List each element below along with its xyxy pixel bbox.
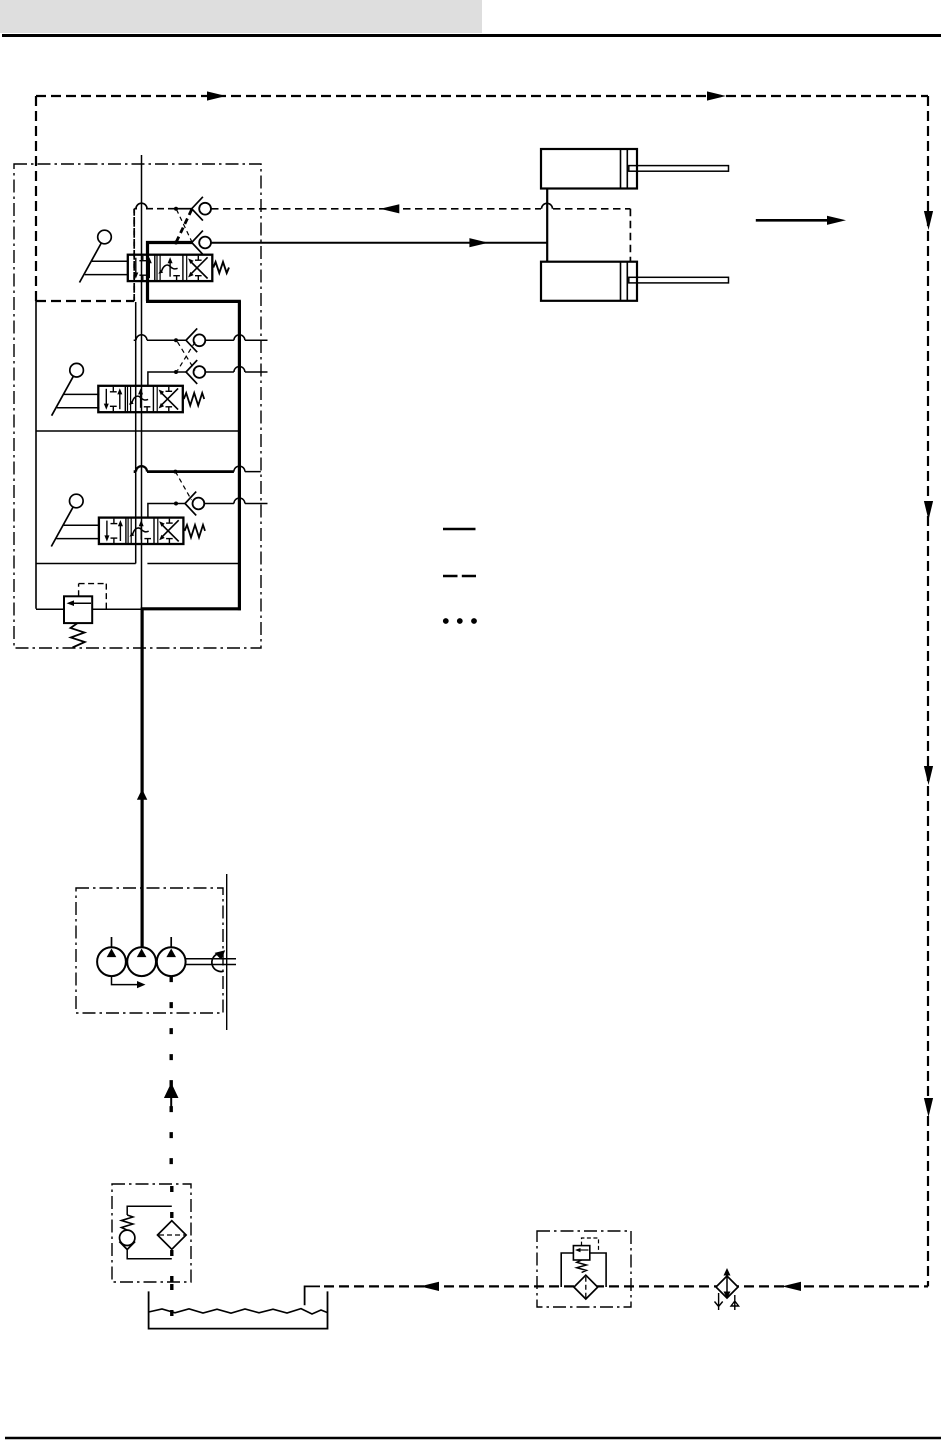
arrow right on work line — [469, 238, 488, 247]
jump over barrel wall — [542, 203, 553, 208]
cylinder upper barrel — [541, 149, 637, 189]
relief valve RV1 — [64, 596, 92, 623]
suction arrow up — [166, 1085, 177, 1112]
pump P2 — [127, 947, 156, 976]
valve V2 spring — [184, 393, 204, 406]
suction line in filter dotted — [170, 1186, 173, 1282]
arrow down right line — [924, 501, 933, 520]
valve V2 branch B right — [205, 367, 267, 372]
pilot cross X2 dashed — [178, 342, 196, 371]
arrow left on return line — [782, 1282, 801, 1291]
suction strainer F1 — [158, 1221, 187, 1250]
node J6 — [174, 502, 178, 506]
valve V3 spring — [185, 525, 205, 538]
cylinder lower rod — [629, 277, 729, 283]
pilot line to cylinder dashed — [211, 208, 630, 210]
block left border — [35, 301, 37, 609]
work line to cylinder — [211, 242, 547, 244]
return line dashed bottom — [324, 1285, 928, 1287]
legend dotted line — [443, 618, 477, 624]
valve V3 branch B right — [204, 498, 267, 504]
breather check right — [731, 1295, 739, 1310]
arrow on top line — [207, 91, 226, 100]
header bar — [0, 0, 482, 33]
cylinder lower barrel — [541, 262, 637, 301]
check valve CV1b — [192, 231, 211, 255]
valve V2 branch A — [134, 335, 268, 341]
relief valve pilot dashes — [79, 584, 107, 610]
arrow down right line — [924, 211, 933, 230]
bypass spring — [122, 1215, 133, 1230]
bypass check valve — [119, 1230, 135, 1249]
valve V2 body — [98, 386, 183, 412]
block shelf line right — [147, 563, 239, 565]
valve V2 branch B elbow — [148, 372, 186, 386]
rotation arrowhead — [215, 950, 226, 960]
supply gallery bottom — [141, 607, 241, 610]
pump P1 — [97, 947, 126, 976]
arrow on top line — [707, 91, 726, 100]
pilot loop left line — [35, 96, 37, 301]
legend dashed line — [443, 575, 476, 578]
return filter F2 — [574, 1275, 598, 1299]
supply gallery top — [146, 300, 241, 303]
rotation arrow — [212, 954, 224, 972]
legend solid line — [443, 528, 476, 531]
arrow up pump riser — [137, 789, 147, 800]
check valve CV2a — [186, 328, 205, 352]
section separator line — [36, 430, 239, 432]
relief valve spring — [71, 623, 85, 647]
wire J1 to check seat — [176, 208, 192, 210]
pilot riser dashed — [133, 209, 135, 301]
pilot cross X1 thin dashed — [177, 210, 192, 242]
node J5 — [173, 470, 177, 474]
breather diamond — [716, 1276, 738, 1298]
header rule — [2, 34, 941, 37]
reservoir tank — [149, 1291, 328, 1328]
motion arrow — [756, 216, 846, 225]
suction dip tube dotted — [170, 1284, 173, 1326]
pilot cross X1 bold dashed — [177, 210, 192, 242]
arrow left on return line — [420, 1282, 439, 1291]
pilot loop lower horizontal — [36, 300, 134, 302]
return filter bypass loop — [561, 1253, 606, 1287]
check valve CV3 — [185, 492, 204, 516]
V1 work line thick elbow — [148, 243, 193, 302]
cylinder upper piston — [621, 149, 628, 189]
inner return line vertical — [135, 302, 137, 564]
cylinder manifold left wall — [546, 189, 548, 262]
valve V3 branch A thick — [134, 466, 261, 471]
pilot loop top line — [36, 95, 928, 97]
drain arrowhead — [137, 981, 146, 988]
pilot loop right line — [927, 96, 929, 1286]
tank return line vertical — [141, 155, 143, 609]
pump P3 — [157, 947, 186, 976]
suction filter box — [112, 1184, 191, 1282]
arrow left on pilot line — [380, 204, 399, 213]
pilot diagonal dashed — [175, 472, 191, 500]
cylinder upper rod — [629, 166, 729, 172]
return relief valve — [573, 1246, 589, 1260]
pump unit box — [76, 888, 223, 1013]
breather check left — [715, 1293, 723, 1310]
pump shaft double line — [186, 959, 236, 965]
bypass circuit lines — [127, 1206, 172, 1258]
valve V1 spring — [213, 262, 229, 273]
node J1 — [174, 207, 178, 211]
cylinder lower piston — [621, 262, 628, 301]
valve V3 lever — [51, 494, 99, 546]
node J4 — [174, 370, 178, 374]
return relief spring — [577, 1260, 587, 1273]
return pipe elbow into tank — [305, 1286, 320, 1305]
node J2 — [174, 241, 178, 245]
footer rule — [5, 1437, 941, 1439]
node J3 — [174, 338, 178, 342]
arrow down right line — [924, 766, 933, 785]
arrow down right line — [924, 1098, 933, 1117]
block shelf line left — [36, 563, 136, 565]
valve V2 lever — [52, 363, 100, 415]
check valve CV1a — [192, 197, 211, 221]
pump P3 port stub — [170, 937, 172, 947]
pump side line — [226, 874, 228, 1030]
pilot cross X2 dashed — [178, 342, 196, 371]
tank fluid surface — [149, 1309, 328, 1314]
breather flow arrows — [724, 1268, 731, 1299]
return relief pilot dashes — [582, 1238, 599, 1252]
cylinder pilot drop dashed — [629, 209, 631, 262]
valve V1 body — [128, 255, 213, 281]
check valve CV2b — [186, 360, 205, 384]
valve V3 body — [99, 518, 183, 544]
relief line horizontal — [36, 608, 142, 610]
return filter box — [537, 1231, 631, 1307]
pump P1 port stub — [111, 937, 113, 947]
valve block boundary dash-dot box — [14, 164, 261, 648]
supply gallery right — [238, 301, 241, 610]
pilot through-valve dashed — [133, 209, 135, 301]
pump drain line — [112, 976, 139, 985]
valve V3 branch B elbow — [148, 504, 185, 518]
suction dotted line — [169, 976, 172, 1184]
valve V1 pilot branch dashed — [134, 203, 176, 209]
valve V1 lever — [80, 230, 128, 282]
pump riser thick — [141, 609, 144, 948]
